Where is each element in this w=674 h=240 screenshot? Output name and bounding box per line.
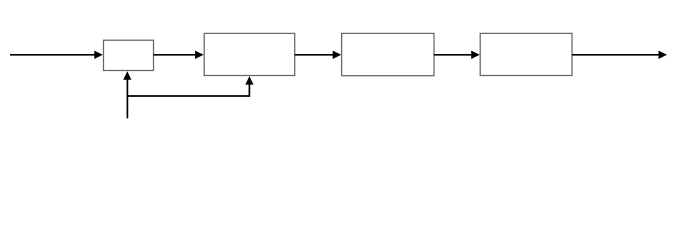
block 3 [342, 33, 434, 75]
block 2 [204, 33, 295, 75]
block 4 [480, 33, 572, 75]
block 1 (small box) [104, 40, 154, 70]
wire: input arrow into block 1 [10, 51, 103, 59]
wire: block 2 to block 3 arrow [295, 51, 342, 59]
wire: arrowhead into bottom of block 2 [245, 76, 253, 85]
wire: output arrow from block 4 [572, 51, 667, 59]
wire: block 1 to block 2 arrow [154, 51, 204, 59]
wire: block 3 to block 4 arrow [434, 51, 480, 59]
wire: horizontal feedback run with corner up [127, 81, 249, 97]
wire: vertical feedback riser into bottom of block 1 [123, 71, 131, 118]
